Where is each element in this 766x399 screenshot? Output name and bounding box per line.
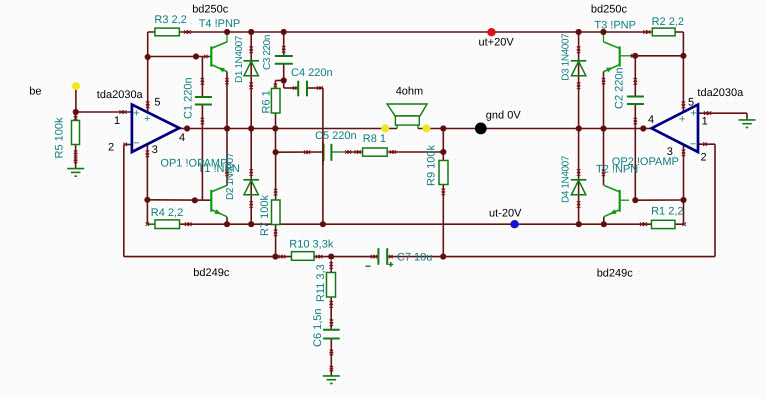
svg-text:R11 3,3: R11 3,3	[315, 264, 327, 302]
junction R9 at output rail	[441, 126, 447, 132]
junction T4 collector at +rail	[224, 29, 230, 35]
wire OP1 pin1 input	[76, 111, 132, 113]
junction T4-T1 line at output rail	[224, 126, 230, 132]
svg-text:4: 4	[179, 132, 185, 144]
wire feedback rail y152 left	[276, 151, 324, 153]
label bd250c right	[591, 4, 628, 16]
wire C2 upper stem	[634, 56, 636, 97]
wire R4 left lead	[147, 223, 155, 225]
svg-text:R7 100k: R7 100k	[259, 195, 271, 236]
value R7 (rotated)	[259, 195, 271, 236]
svg-text:C5 220n: C5 220n	[315, 130, 357, 142]
junction D3 at +rail	[576, 29, 582, 35]
svg-text:be: be	[29, 86, 41, 98]
value R3	[154, 14, 186, 26]
pin number OP2-3	[667, 146, 673, 158]
value T3	[594, 19, 636, 31]
svg-text:+: +	[690, 108, 696, 120]
wire output rail left of speaker	[179, 128, 397, 130]
junction R6 / R7 / C5 rail	[273, 149, 279, 155]
svg-text:ut+20V: ut+20V	[479, 36, 515, 48]
capacitor C3 220n	[275, 56, 293, 64]
wire D3 anode-cathode line	[578, 32, 580, 224]
pin number OP1-3	[152, 144, 158, 156]
svg-text:R3 2,2: R3 2,2	[154, 14, 186, 26]
junction T2 base / C2	[633, 197, 639, 203]
junction pin2-OP1 loop / R7 / R10	[273, 254, 279, 260]
pin number OP2-2	[701, 152, 707, 164]
junction T3-T2 line at output rail	[601, 126, 607, 132]
pin number OP2-1	[702, 116, 708, 128]
wire T1 base	[147, 199, 210, 201]
label bd249c right	[597, 268, 634, 280]
ground right of OP2	[739, 113, 756, 127]
value D3 (rotated)	[560, 33, 571, 81]
svg-text:T2 !NPN: T2 !NPN	[596, 164, 638, 176]
pin number OP1-4	[179, 132, 185, 144]
junction left rail / T4 base / pin5	[145, 54, 151, 60]
svg-text:−: −	[133, 137, 139, 149]
junction T3 base / C2	[632, 53, 638, 59]
label ut-20V	[489, 208, 522, 220]
junction T1 emitter at bottom rail	[224, 221, 230, 227]
svg-text:bd249c: bd249c	[193, 267, 230, 279]
junction R10 / R11 / C7	[328, 254, 334, 260]
junction C4 line at bottom rail	[320, 221, 326, 227]
resistor R4 2,2	[155, 220, 180, 229]
value T2	[596, 164, 638, 176]
value D4 (rotated)	[561, 155, 572, 203]
svg-text:2: 2	[108, 142, 114, 154]
svg-text:T4 !PNP: T4 !PNP	[199, 18, 241, 30]
ground input left	[67, 169, 84, 177]
wire bottom rail y224	[180, 223, 652, 225]
wire bottom net rail y256	[275, 256, 715, 258]
wire top +20V rail	[148, 31, 684, 33]
svg-text:4: 4	[648, 114, 654, 126]
wire left rail vertical / pin5 OP1	[147, 32, 149, 112]
svg-text:1: 1	[702, 116, 708, 128]
wire T3 base	[630, 55, 683, 57]
value R11 (rotated)	[315, 264, 327, 302]
value R4	[151, 207, 183, 219]
svg-text:R5 100k: R5 100k	[54, 117, 66, 158]
pin number OP1-2	[108, 142, 114, 154]
wire R9 bottom lead	[442, 185, 444, 257]
value C7	[397, 252, 432, 264]
junction R6-R7 line at output rail	[273, 126, 279, 132]
wire C4 right to bottom rail	[307, 88, 323, 224]
label bd249c left	[193, 267, 230, 279]
wire OP2 pin1 to ground	[698, 112, 747, 114]
resistor R9 100k	[439, 161, 448, 185]
junction R9 top / R8 rail	[441, 149, 447, 155]
wire OP1 pin2 loop down	[123, 145, 125, 257]
value R6 (rotated)	[260, 90, 272, 113]
svg-text:C3 220n: C3 220n	[262, 35, 273, 70]
value C1 (rotated)	[183, 77, 195, 119]
wire R5 leads	[75, 112, 77, 169]
value R8	[363, 133, 386, 145]
junction T2 emitter at bottom rail	[601, 221, 607, 227]
transistor T4 PNP	[210, 33, 227, 72]
wire R6 bottom lead	[275, 113, 277, 152]
svg-text:D4 1N4007: D4 1N4007	[561, 155, 572, 203]
capacitor C7 10u electrolytic	[366, 248, 394, 267]
pin number OP2-4	[648, 114, 654, 126]
wire feedback rail y152 R8 to R9	[387, 151, 443, 153]
value R5 (rotated)	[54, 117, 66, 158]
junction D2 at bottom rail	[248, 221, 254, 227]
junction R9 / C7 / pin2-OP2 loop	[440, 254, 446, 260]
wire C6 to ground	[330, 339, 332, 376]
value R2	[652, 16, 684, 28]
junction right rail / T3 base / pin5	[681, 53, 687, 59]
svg-text:D1 1N4007: D1 1N4007	[234, 35, 245, 83]
junction pin3 OP1 / T1 base / R4	[145, 197, 151, 203]
svg-text:bd250c: bd250c	[591, 4, 628, 16]
wire R7 leads	[275, 152, 277, 256]
capacitor C4 220n	[298, 81, 307, 97]
junction pin3 OP2 / T2 base / R1	[681, 197, 687, 203]
resistor R11 3,3	[327, 273, 336, 298]
svg-text:D3 1N4007: D3 1N4007	[560, 33, 571, 81]
svg-text:R4 2,2: R4 2,2	[151, 207, 183, 219]
label tda2030a right	[697, 87, 744, 99]
pin number OP1-1	[114, 115, 120, 127]
wire T4 base	[148, 56, 211, 58]
junction T4 base / C1	[193, 54, 199, 60]
svg-text:3: 3	[152, 144, 158, 156]
diode D1 1N4007	[243, 61, 259, 76]
value T1	[198, 163, 240, 175]
wire OP2 pin2 stub	[698, 143, 715, 145]
wire right rail vertical / pin5 OP2	[682, 32, 684, 112]
junction D1 at +rail	[248, 29, 254, 35]
node be (yellow)	[72, 82, 80, 90]
junction D1-D2 line at output rail	[248, 126, 254, 132]
wire C3 junction to R6 elbow	[275, 81, 283, 89]
pin ticks	[74, 30, 711, 371]
wire T4 emitter / T1 collector vertical	[226, 72, 228, 225]
ground below C6	[323, 376, 340, 384]
wire T3 emitter / T2 collector vertical	[603, 72, 605, 225]
speaker 4ohm	[387, 104, 427, 128]
value OP2	[612, 156, 679, 168]
wire C1 upper stem	[201, 57, 203, 98]
wire OP2 pin2 loop up	[714, 144, 716, 256]
value OP1	[160, 157, 227, 169]
svg-text:2: 2	[701, 152, 707, 164]
svg-text:tda2030a: tda2030a	[97, 89, 144, 101]
resistor R10 3,3k	[292, 252, 315, 261]
svg-text:D2 1N4007: D2 1N4007	[225, 152, 236, 200]
svg-text:T3 !PNP: T3 !PNP	[594, 19, 636, 31]
node gnd 0V (black)	[475, 122, 487, 134]
wire C3 junction to C4	[284, 81, 299, 89]
svg-text:R1 2,2: R1 2,2	[651, 205, 683, 217]
svg-text:−: −	[690, 139, 696, 151]
resistor R3 2,2	[155, 28, 179, 36]
wire R9 top lead	[442, 129, 444, 161]
svg-text:bd249c: bd249c	[597, 268, 634, 280]
junction C3 / R6 / C4	[281, 78, 287, 84]
diode D3 1N4007	[571, 61, 587, 76]
junction T1 base / C1	[192, 198, 198, 204]
svg-text:R6 1: R6 1	[260, 90, 272, 113]
value R10	[289, 239, 334, 251]
svg-text:1: 1	[114, 115, 120, 127]
resistor R6 1	[271, 89, 280, 114]
resistor R8 1	[363, 148, 388, 156]
svg-text:4ohm: 4ohm	[396, 86, 424, 98]
capacitor C5 220n	[323, 140, 332, 165]
transistor T3 PNP	[604, 33, 631, 72]
junction input be / R5 / pin1	[73, 109, 79, 115]
wire output rail right of speaker	[418, 128, 652, 130]
value C4	[291, 67, 333, 79]
value C6 (rotated)	[312, 308, 324, 347]
wire T2 base	[635, 199, 683, 201]
label 4ohm	[396, 86, 424, 98]
node ut-20V (blue)	[510, 220, 518, 228]
svg-text:5: 5	[688, 96, 694, 108]
value R9 (rotated)	[425, 145, 437, 186]
transistor T1 NPN	[210, 185, 227, 216]
value C2 (rotated)	[614, 67, 626, 109]
node ut+20V (red)	[487, 28, 495, 36]
wire OP1 pin2 stub	[124, 144, 132, 146]
label ut+20V	[479, 36, 515, 48]
wire C3 stem	[283, 32, 285, 81]
value C5	[315, 130, 357, 142]
junction D4 at bottom rail	[576, 221, 582, 227]
svg-text:+: +	[133, 108, 139, 120]
node speaker left terminal (yellow)	[381, 124, 389, 132]
resistor R5 100k	[72, 121, 80, 145]
op-amp OP2 tda2030a	[652, 105, 699, 152]
transistor T2 NPN	[604, 185, 629, 216]
value T4	[199, 18, 241, 30]
resistor R7 100k	[272, 200, 281, 225]
diode D4 1N4007	[571, 180, 587, 195]
svg-text:R2 2,2: R2 2,2	[652, 16, 684, 28]
resistor R1 2,2	[652, 220, 676, 228]
pin number OP2-5	[688, 96, 694, 108]
label tda2030a left	[97, 89, 144, 101]
value D2 (rotated)	[225, 152, 236, 200]
junction OP1 output at rail	[184, 126, 190, 132]
label gnd 0V	[486, 110, 522, 122]
wire C1 lower stem	[201, 105, 203, 201]
svg-text:+: +	[679, 114, 685, 126]
resistor R2 2,2	[652, 28, 675, 36]
svg-text:R8 1: R8 1	[363, 133, 386, 145]
op-amp OP1 tda2030a	[132, 105, 179, 152]
wire feedback rail y152 C5 to R8	[331, 151, 362, 153]
svg-text:ut-20V: ut-20V	[489, 208, 522, 220]
label be	[29, 86, 41, 98]
capacitor C2 220n	[627, 97, 644, 105]
svg-text:R10 3,3k: R10 3,3k	[289, 239, 334, 251]
svg-text:5: 5	[154, 97, 160, 109]
value D1 (rotated)	[234, 35, 245, 83]
node speaker right terminal (yellow)	[422, 124, 430, 132]
wire input be drop	[75, 90, 77, 113]
wire D1 anode-cathode line	[250, 32, 252, 224]
junction D3-D4 line at output rail	[576, 126, 582, 132]
wire OP1 pin3 / R4 drop	[146, 144, 148, 224]
capacitor C6 1,5n	[323, 330, 340, 339]
svg-text:bd250c: bd250c	[192, 4, 229, 16]
svg-text:C2 220n: C2 220n	[614, 67, 626, 109]
junction OP2 output at rail	[641, 126, 647, 132]
svg-text:+: +	[144, 113, 150, 125]
junction T3 collector at +rail	[601, 29, 607, 35]
value R1	[651, 205, 683, 217]
wire OP1 pin2 loop bottom	[124, 256, 276, 258]
capacitor C1 220n	[195, 97, 212, 105]
label bd250c left	[192, 4, 229, 16]
svg-text:gnd 0V: gnd 0V	[486, 110, 522, 122]
value C3 (rotated)	[262, 35, 273, 70]
wire R11 leads	[330, 261, 332, 330]
svg-text:C7 10u: C7 10u	[397, 252, 432, 264]
svg-text:C1 220n: C1 220n	[183, 77, 195, 119]
svg-text:R9 100k: R9 100k	[425, 145, 437, 186]
svg-text:C6 1,5n: C6 1,5n	[312, 308, 324, 347]
diode D2 1N4007	[243, 180, 259, 195]
junction C3 at +rail	[281, 29, 287, 35]
pin number OP1-5	[154, 97, 160, 109]
svg-text:tda2030a: tda2030a	[697, 87, 744, 99]
svg-text:C4 220n: C4 220n	[291, 67, 333, 79]
wire C2 lower stem	[634, 104, 636, 200]
wire R1 right lead / pin3 OP2 drop	[675, 145, 684, 225]
